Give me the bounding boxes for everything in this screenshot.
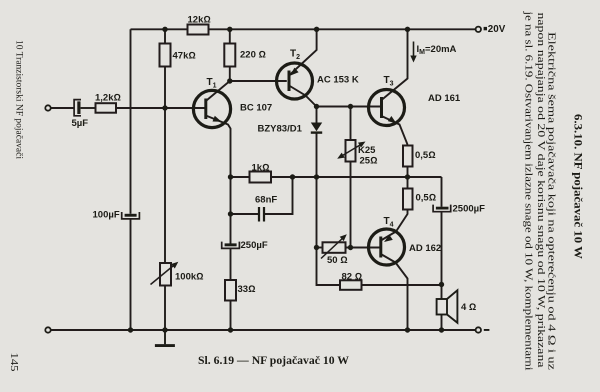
- wire 47k bottom to base node: [164, 67, 166, 109]
- wire left decoupling branch lower: [130, 220, 132, 331]
- svg-text:AD 161: AD 161: [428, 93, 461, 104]
- wire bias node down and to 82R: [317, 248, 341, 286]
- junction 82R / speaker top: [439, 282, 444, 287]
- svg-text:100µF: 100µF: [93, 210, 120, 221]
- junction 68nF tap: [228, 211, 233, 216]
- wire T1 emitter chain to 250uF: [230, 177, 232, 244]
- svg-text:20V: 20V: [488, 24, 506, 35]
- capacitor 100uF: [122, 212, 140, 219]
- label +20V: [484, 27, 487, 30]
- junction T1 collector node: [227, 78, 232, 83]
- ground symbol: [164, 330, 166, 344]
- svg-text:33Ω: 33Ω: [238, 284, 256, 295]
- speaker 4R: [437, 290, 458, 323]
- wire R1.2k to T1 base: [116, 107, 206, 109]
- resistor 47k: [160, 44, 171, 67]
- junction ground/100uF: [128, 327, 133, 332]
- svg-text:100kΩ: 100kΩ: [175, 272, 203, 283]
- junction rail/T2 emitter: [314, 27, 319, 32]
- junction K25 top: [348, 104, 353, 109]
- wire 250uF to 33R: [230, 249, 232, 280]
- wire T1 emitter lead: [206, 116, 231, 178]
- wire T1 collector lead: [206, 81, 230, 101]
- svg-text:10 Tranzistorski NF pojačavači: 10 Tranzistorski NF pojačavači: [14, 40, 24, 159]
- svg-text:250µF: 250µF: [241, 240, 268, 251]
- resistor 1.2k: [96, 103, 117, 113]
- junction ground/speaker: [439, 327, 444, 332]
- svg-text:AC 153 K: AC 153 K: [317, 75, 359, 86]
- wire left decoupling branch upper: [130, 29, 132, 214]
- svg-text:napon napajanja od 20 V daje k: napon napajanja od 20 V daje korisnu sna…: [535, 13, 547, 368]
- junction ground/100k: [162, 327, 167, 332]
- terminal +20V: [476, 27, 481, 32]
- wire 0.5R b top: [407, 177, 409, 189]
- wire K25 top: [350, 107, 352, 141]
- wire 68nF left: [231, 213, 259, 215]
- wire T2 collector lead: [289, 86, 317, 107]
- capacitor 5uF (input electrolytic): [74, 100, 81, 116]
- minus sign at output terminal: [484, 329, 490, 331]
- wire T1 collector node to T2 base: [230, 80, 287, 82]
- junction output node: [405, 174, 410, 179]
- wire input to C5uF: [51, 107, 74, 109]
- terminal output minus: [476, 327, 481, 332]
- svg-text:5µF: 5µF: [72, 118, 89, 129]
- junction 1k/68n right: [290, 174, 295, 179]
- terminal ground left: [45, 327, 50, 332]
- resistor 12k: [188, 25, 209, 35]
- diode BZY83/D1: [311, 123, 322, 133]
- svg-text:50 Ω: 50 Ω: [327, 255, 348, 266]
- wire T3 emitter to 0.5R: [382, 116, 408, 146]
- wire 100k lower: [164, 286, 166, 331]
- svg-text:je na sl. 6.19. Ostvarivanjem: je na sl. 6.19. Ostvarivanjem izlazne sn…: [523, 10, 535, 370]
- rheostat 100k arrow: [151, 264, 177, 285]
- junction diode cathode / feedback: [314, 174, 319, 179]
- wire speaker to ground: [441, 315, 443, 331]
- resistor 82R: [340, 280, 362, 290]
- svg-text:1kΩ: 1kΩ: [252, 163, 270, 174]
- svg-text:47kΩ: 47kΩ: [173, 51, 196, 62]
- capacitor 250uF: [222, 242, 240, 249]
- wire T2 emitter lead to rail: [289, 29, 317, 75]
- junction bias chain / 50R left: [314, 245, 319, 250]
- svg-text:6.3.10. NF pojačavač 10 W: 6.3.10. NF pojačavač 10 W: [572, 114, 584, 260]
- transistor T2 AC153K: [277, 63, 313, 99]
- wire T3 collector to rail: [382, 29, 408, 100]
- wire T2 collector to T3 base: [317, 106, 382, 108]
- wire feedback row left: [231, 176, 250, 178]
- junction rail/T3 collector: [405, 27, 410, 32]
- svg-text:Sl. 6.19 — NF pojačavač 10 W: Sl. 6.19 — NF pojačavač 10 W: [198, 355, 349, 367]
- wire K25 bottom: [350, 162, 352, 248]
- resistor 33R: [225, 280, 236, 301]
- junction T1 base node: [162, 105, 167, 110]
- junction ground/33R: [228, 327, 233, 332]
- transistor T3 AD161: [369, 90, 405, 126]
- svg-text:BZY83/D1: BZY83/D1: [258, 124, 303, 135]
- svg-text:68nF: 68nF: [255, 195, 277, 206]
- wire output cap top: [441, 177, 443, 207]
- wire top supply rail: [131, 28, 476, 30]
- wire 68nF right up to feedback node: [264, 177, 293, 214]
- junction T2 collector node: [314, 104, 319, 109]
- wire 33R to ground rail: [230, 301, 232, 331]
- svg-text:1,2kΩ: 1,2kΩ: [95, 93, 121, 104]
- current arrow IM: [410, 42, 416, 63]
- wire 0.5R a bottom: [407, 167, 409, 178]
- rheostat 100k body: [160, 263, 171, 286]
- junction K25 bottom / T4 base: [348, 245, 353, 250]
- capacitor 2500uF: [433, 205, 451, 212]
- wire ground rail: [51, 329, 475, 331]
- wire feedback row right: [271, 176, 442, 178]
- junction ground/T4 collector: [405, 327, 410, 332]
- svg-text:0,5Ω: 0,5Ω: [415, 150, 436, 161]
- svg-text:0,5Ω: 0,5Ω: [416, 193, 437, 204]
- junction T1 emitter / 1k: [228, 174, 233, 179]
- svg-text:4 Ω: 4 Ω: [461, 302, 476, 313]
- wire 100k upper: [164, 108, 166, 263]
- svg-text:K25: K25: [358, 145, 376, 156]
- wire 220R bottom to T1 collector node: [229, 67, 231, 82]
- wire diode anode: [316, 107, 318, 123]
- rheostat K25 arrow: [151, 142, 366, 285]
- wire output cap to speaker node: [441, 212, 443, 299]
- resistor 1k: [250, 172, 272, 183]
- wire 50R left: [317, 247, 323, 249]
- transistor T4 AD162: [369, 229, 405, 265]
- rheostat K25 body: [346, 140, 356, 162]
- wire 0.5R b to T4 emitter: [381, 210, 408, 241]
- rheostat 50R arrow: [321, 236, 345, 259]
- wire diode cathode down to feedback node: [316, 134, 318, 248]
- svg-text:145: 145: [8, 353, 20, 373]
- wire T4 collector to ground: [381, 254, 408, 330]
- wire 47k top: [164, 29, 166, 43]
- svg-text:82 Ω: 82 Ω: [342, 272, 363, 283]
- terminal input: [45, 105, 50, 110]
- wire 82R to speaker node: [362, 284, 442, 286]
- transistor T1 BC107: [193, 90, 230, 127]
- resistor 220R: [224, 44, 235, 67]
- wire C5uF to R1.2k: [81, 107, 96, 109]
- rheostat 50R body: [323, 242, 346, 253]
- svg-text:AD 162: AD 162: [409, 243, 441, 254]
- svg-text:2500µF: 2500µF: [453, 204, 486, 215]
- svg-text:BC 107: BC 107: [240, 103, 272, 114]
- svg-text:220 Ω: 220 Ω: [240, 50, 266, 61]
- capacitor 68nF: [259, 207, 264, 222]
- svg-text:25Ω: 25Ω: [360, 156, 378, 167]
- resistor 0.5R b: [403, 189, 413, 210]
- junction rail/220R: [227, 27, 232, 32]
- svg-text:12kΩ: 12kΩ: [188, 15, 211, 26]
- wire 220R top: [229, 29, 231, 43]
- junction rail/47k: [162, 27, 167, 32]
- resistor 0.5R a: [403, 146, 413, 167]
- wire 50R right to T4 base: [346, 247, 381, 249]
